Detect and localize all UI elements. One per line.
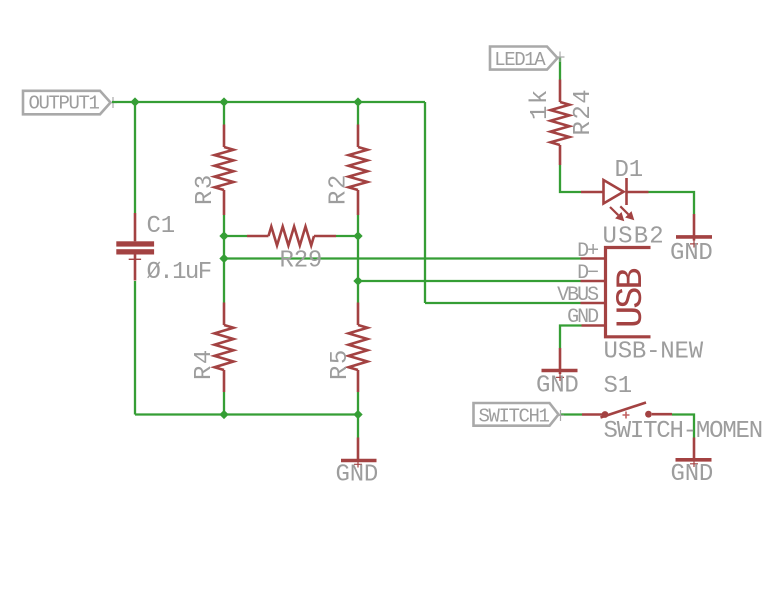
wire top horizontal OUTPUT1 net: [112, 101, 425, 103]
wire R2 top: [357, 102, 359, 125]
resistor R4: [215, 303, 234, 393]
svg-text:R3: R3: [192, 173, 219, 205]
wire LED1A flag to R24: [559, 57, 561, 80]
wire R2 bottom to R5 top: [357, 215, 359, 303]
junction bottom wire / R4: [219, 410, 228, 419]
svg-text:R24: R24: [570, 88, 597, 136]
resistor R2: [349, 125, 368, 216]
resistor R5: [349, 303, 368, 393]
wire R3 top: [223, 102, 225, 125]
svg-text:USB-NEW: USB-NEW: [604, 339, 704, 366]
net flag OUTPUT1: [23, 91, 117, 115]
svg-text:OUTPUT1: OUTPUT1: [29, 93, 100, 115]
wire R5 junction to GND: [357, 415, 359, 438]
svg-text:LED1A: LED1A: [494, 49, 546, 71]
junction R2/R29: [353, 231, 362, 240]
wire C1 bottom: [134, 281, 136, 415]
svg-text:C1: C1: [147, 213, 175, 240]
wire R3 bottom to R4 top: [223, 215, 225, 303]
svg-text:R29: R29: [280, 248, 323, 275]
wire D+ horizontal: [224, 257, 581, 259]
resistor R29: [247, 227, 336, 246]
svg-text:Ø.1uF: Ø.1uF: [147, 259, 211, 286]
svg-text:USB2: USB2: [603, 224, 665, 251]
wire right vertical to VBUS: [424, 102, 426, 303]
svg-text:USB: USB: [611, 269, 653, 328]
svg-text:VBUS: VBUS: [557, 284, 599, 307]
svg-text:GND: GND: [536, 373, 579, 400]
svg-text:GND: GND: [671, 461, 714, 488]
resistor R3: [215, 125, 234, 216]
pin D+: [581, 257, 606, 260]
junction R3/R29: [219, 231, 228, 240]
capacitor C1: [116, 213, 154, 281]
ground symbol at USB: [542, 348, 578, 381]
wire R24 to D1 corner: [560, 165, 581, 192]
resistor R24: [551, 80, 570, 166]
svg-text:D1: D1: [615, 157, 643, 184]
wire D1 cathode to GND corner: [649, 192, 695, 214]
svg-text:GND: GND: [567, 306, 598, 329]
wire R5 bottom: [357, 392, 359, 415]
wire R29 right: [336, 235, 358, 237]
wire C1 top: [134, 102, 136, 213]
wire D- horizontal: [358, 280, 581, 282]
wire S1 to GND corner: [672, 415, 694, 438]
junction at top wire / R3: [219, 97, 228, 106]
pin D-: [581, 280, 606, 283]
ground symbol at D1: [676, 214, 712, 248]
junction at top wire / C1: [130, 97, 139, 106]
pin VBUS: [581, 302, 606, 305]
net flag SWITCH1: [474, 403, 565, 428]
wire R29 left: [224, 235, 247, 237]
svg-text:GND: GND: [670, 240, 713, 267]
USB connector USB2: [606, 248, 654, 337]
ground symbol at R5: [341, 438, 377, 468]
junction bottom wire / R5: [353, 410, 362, 419]
svg-text:R5: R5: [327, 348, 354, 380]
wire R4 bottom: [223, 392, 225, 415]
wire bottom horizontal: [135, 413, 358, 415]
junction at top wire / R2: [353, 97, 362, 106]
wire SWITCH1 flag to S1: [560, 413, 582, 415]
svg-text:1k: 1k: [527, 88, 554, 120]
svg-text:S1: S1: [604, 373, 632, 400]
svg-text:D+: D+: [577, 240, 598, 263]
svg-text:R2: R2: [326, 173, 353, 205]
pin GND: [582, 324, 606, 327]
net flag LED1A: [490, 47, 565, 72]
svg-text:SWITCH-MOMEN: SWITCH-MOMEN: [604, 418, 762, 445]
svg-text:GND: GND: [336, 462, 379, 489]
junction D+ tap: [219, 254, 228, 263]
wire VBUS horizontal: [425, 302, 581, 304]
switch S1: [582, 403, 672, 419]
LED D1: [581, 178, 649, 221]
wire USB GND pin: [560, 326, 582, 349]
junction D- tap: [353, 276, 362, 285]
svg-text:R4: R4: [191, 348, 218, 380]
svg-text:SWITCH1: SWITCH1: [479, 406, 550, 428]
svg-text:D−: D−: [577, 262, 598, 285]
ground symbol at S1: [676, 438, 712, 468]
